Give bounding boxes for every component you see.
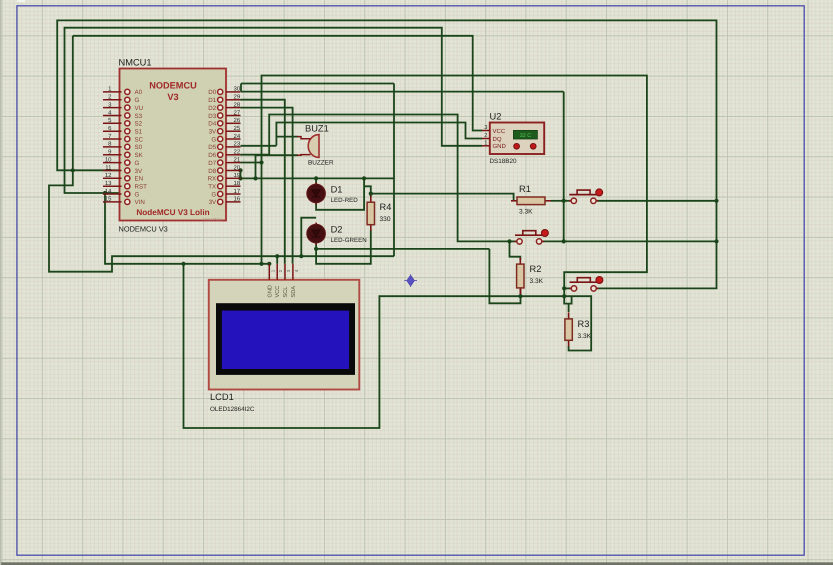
buzzer BUZ1 terminal stubs bbox=[297, 137, 311, 139]
svg-text:GND: GND bbox=[493, 143, 507, 150]
svg-text:27: 27 bbox=[234, 109, 241, 116]
pin 30 D0 right stub bbox=[226, 91, 241, 93]
svg-text:EN: EN bbox=[135, 176, 144, 183]
svg-text:BUZZER: BUZZER bbox=[308, 160, 334, 167]
NodeMCU module NMCU1 body bbox=[120, 69, 227, 221]
svg-text:NodeMCU V3 Lolin: NodeMCU V3 Lolin bbox=[136, 208, 209, 217]
resistor R4 body bbox=[370, 196, 372, 203]
svg-text:16: 16 bbox=[234, 196, 241, 203]
wire R2 top jog bbox=[510, 241, 521, 260]
svg-text:D4: D4 bbox=[208, 121, 216, 128]
svg-text:3.3K: 3.3K bbox=[519, 208, 533, 215]
node LED D2 top bbox=[299, 254, 303, 258]
svg-text:S2: S2 bbox=[135, 121, 143, 128]
svg-text:D2: D2 bbox=[331, 225, 343, 235]
pin 3 VU left stub bbox=[103, 107, 122, 109]
svg-text:24: 24 bbox=[234, 133, 241, 140]
svg-text:3V: 3V bbox=[209, 128, 217, 135]
wire D1 to LCD SCL bbox=[241, 100, 285, 264]
pin 11 3V left stub bbox=[103, 170, 122, 172]
svg-text:DS18B20: DS18B20 bbox=[490, 158, 517, 165]
svg-text:32 C: 32 C bbox=[520, 133, 531, 139]
push button S2 terminals bbox=[515, 240, 517, 242]
svg-text:3.3K: 3.3K bbox=[578, 333, 592, 340]
svg-text:SC: SC bbox=[135, 136, 144, 143]
pin 28 D2 right stub bbox=[226, 107, 241, 109]
svg-text:SDA: SDA bbox=[291, 286, 297, 298]
node LCD GND bbox=[267, 262, 271, 266]
svg-text:BUZ1: BUZ1 bbox=[305, 124, 329, 134]
svg-text:G: G bbox=[135, 160, 140, 167]
node R1 right bbox=[562, 199, 566, 203]
svg-text:G: G bbox=[135, 97, 140, 104]
wire to button 1 left bbox=[564, 200, 572, 202]
node RX-R4 bbox=[362, 176, 366, 180]
svg-text:GND: GND bbox=[267, 285, 273, 297]
wire GND from pin 14 over top to U2 GND bbox=[65, 28, 483, 193]
node row2 bbox=[562, 239, 566, 243]
wire R2 bottom bbox=[520, 288, 522, 296]
wire R4 bottom loop bbox=[316, 230, 371, 264]
svg-text:OLED12864I2C: OLED12864I2C bbox=[210, 406, 255, 413]
pin 23 D5 right stub bbox=[226, 146, 241, 148]
resistor R2 body bbox=[519, 258, 521, 265]
pin 14 G left stub bbox=[103, 193, 122, 195]
svg-text:D1: D1 bbox=[331, 184, 343, 194]
LCD display LCD1 body bbox=[209, 280, 359, 390]
LED D2 body bbox=[307, 224, 325, 242]
svg-text:A0: A0 bbox=[135, 89, 143, 96]
pin 29 D1 right stub bbox=[226, 99, 241, 101]
svg-text:D5: D5 bbox=[208, 144, 216, 151]
LCD1 screen bezel bbox=[216, 303, 355, 375]
pin 22 D6 right stub bbox=[226, 154, 241, 156]
svg-text:26: 26 bbox=[234, 117, 241, 124]
pin 1 A0 left stub bbox=[103, 91, 122, 93]
svg-text:S0: S0 bbox=[135, 144, 143, 151]
svg-text:14: 14 bbox=[105, 188, 112, 195]
svg-text:LED-RED: LED-RED bbox=[331, 197, 359, 204]
svg-text:S3: S3 bbox=[135, 113, 143, 120]
wire LED D2 top to VCC line bbox=[301, 218, 316, 257]
wire button 3 left bbox=[564, 287, 571, 289]
resistor R3 body bbox=[568, 312, 570, 319]
svg-text:30: 30 bbox=[234, 86, 241, 93]
svg-text:R3: R3 bbox=[578, 319, 590, 329]
node R2 bottom bbox=[518, 294, 522, 298]
svg-text:R1: R1 bbox=[519, 184, 531, 194]
svg-text:LCD1: LCD1 bbox=[210, 392, 234, 402]
U2 indicator LEDs bbox=[514, 143, 520, 149]
svg-text:3V: 3V bbox=[135, 168, 143, 175]
temperature sensor U2 body bbox=[490, 123, 544, 155]
screen left edge bbox=[0, 0, 1, 565]
wire buzzer top terminal bbox=[276, 136, 298, 138]
wire D2 to LCD SDA bbox=[241, 108, 293, 264]
node LED D2 bottom bbox=[314, 247, 318, 251]
node LCD VCC bbox=[275, 254, 279, 258]
resistor R1 body bbox=[511, 200, 517, 202]
pin 5 S2 left stub bbox=[103, 122, 122, 124]
node buzzer RX bbox=[253, 176, 257, 180]
node R4 top bbox=[369, 192, 373, 196]
svg-text:V3: V3 bbox=[167, 92, 178, 102]
svg-text:D1: D1 bbox=[208, 97, 216, 104]
push button S1 actuator bbox=[569, 194, 598, 196]
node LCD loop bbox=[181, 262, 185, 266]
svg-text:S1: S1 bbox=[135, 128, 143, 135]
svg-text:G: G bbox=[211, 191, 216, 198]
wire D6 to button 2 row bbox=[241, 115, 510, 242]
U2 pin stubs bbox=[482, 130, 490, 132]
svg-text:17: 17 bbox=[234, 188, 241, 195]
wire button 2 left bbox=[510, 240, 517, 242]
push button S3 actuator bbox=[570, 281, 599, 283]
svg-text:D6: D6 bbox=[208, 152, 216, 159]
wire R4 junction to R1 left bbox=[371, 194, 514, 201]
node 3V junction bbox=[71, 168, 75, 172]
wire F vertical at x=72.8 bbox=[72, 36, 74, 171]
pin 20 D8 right stub bbox=[226, 170, 241, 172]
svg-text:29: 29 bbox=[234, 94, 241, 101]
push button S3 terminals bbox=[569, 287, 571, 289]
pin 21 D7 right stub bbox=[226, 162, 241, 164]
svg-text:13: 13 bbox=[105, 180, 112, 187]
wire D0 drop to VCC line bbox=[393, 84, 395, 257]
push button S2 indicator bbox=[541, 230, 548, 237]
pin 15 VIN left stub bbox=[103, 201, 122, 203]
LCD1 screen bbox=[222, 311, 349, 369]
svg-text:D0: D0 bbox=[208, 89, 216, 96]
svg-text:SCL: SCL bbox=[283, 287, 289, 298]
wire buzzer-D5 to U2 DQ bbox=[276, 123, 482, 146]
svg-text:3V: 3V bbox=[209, 199, 217, 206]
U2 display window bbox=[513, 130, 537, 139]
svg-text:15: 15 bbox=[105, 196, 112, 203]
pin 18 TX right stub bbox=[226, 185, 241, 187]
svg-text:D2: D2 bbox=[208, 105, 216, 112]
origin marker bbox=[407, 275, 415, 286]
svg-text:VCC: VCC bbox=[275, 286, 281, 298]
svg-text:U2: U2 bbox=[490, 112, 502, 122]
pin 13 RST left stub bbox=[103, 185, 122, 187]
node rail b1 bbox=[714, 199, 718, 203]
pin 27 D3 right stub bbox=[226, 115, 241, 117]
svg-text:VCC: VCC bbox=[493, 128, 506, 135]
wire R3 top stub link bbox=[568, 304, 570, 312]
svg-text:LED-GREEN: LED-GREEN bbox=[331, 237, 367, 244]
svg-text:D3: D3 bbox=[208, 113, 216, 120]
svg-text:1: 1 bbox=[484, 140, 487, 146]
wire LED D2 bottom row bbox=[316, 248, 489, 250]
wire LED D1 top bbox=[315, 178, 317, 184]
svg-text:11: 11 bbox=[105, 164, 112, 171]
pin 9 SK left stub bbox=[103, 154, 122, 156]
svg-text:28: 28 bbox=[234, 101, 241, 108]
wire GND rail upper loop to button 3 bbox=[262, 76, 647, 304]
top notch bbox=[18, 0, 26, 2]
pin 7 SC left stub bbox=[103, 138, 122, 140]
svg-text:VU: VU bbox=[135, 105, 144, 112]
wire D0 upper run bbox=[241, 83, 394, 85]
pin 10 G left stub bbox=[103, 162, 122, 164]
pin 24 G right stub bbox=[226, 138, 241, 140]
wire D7 stub to rail bbox=[241, 162, 262, 164]
svg-text:19: 19 bbox=[234, 172, 241, 179]
wire D0 vertical to R1 junction bbox=[563, 92, 565, 242]
svg-text:12: 12 bbox=[105, 172, 112, 179]
buzzer BUZ1 body bbox=[308, 135, 319, 158]
push button S3 indicator bbox=[596, 277, 603, 284]
LED D2 terminals bbox=[315, 223, 317, 245]
wire D5 row bbox=[241, 145, 277, 147]
svg-text:RST: RST bbox=[135, 183, 148, 190]
wire RX row to D0 drop bbox=[241, 177, 395, 179]
svg-text:3: 3 bbox=[484, 124, 487, 131]
wire D8 drop to RX row bbox=[240, 170, 242, 178]
wire to U2 VCC bbox=[73, 36, 482, 131]
LED D1 body bbox=[307, 184, 325, 202]
wire down to R2 bottom node bbox=[489, 249, 520, 303]
push button S2 actuator bbox=[515, 234, 544, 236]
pin 16 3V right stub bbox=[226, 201, 241, 203]
pin 2 G left stub bbox=[103, 99, 122, 101]
svg-text:RX: RX bbox=[208, 176, 217, 183]
svg-text:3.3K: 3.3K bbox=[530, 278, 544, 285]
svg-text:G: G bbox=[211, 136, 216, 143]
svg-text:330: 330 bbox=[380, 216, 391, 223]
svg-text:20: 20 bbox=[234, 164, 241, 171]
wire R1 right bbox=[551, 200, 564, 202]
wire GND branch to LCD GND bbox=[105, 193, 269, 264]
screen bottom edge bbox=[0, 562, 833, 565]
svg-text:R2: R2 bbox=[530, 264, 542, 274]
wire buzzer bottom drop bbox=[256, 155, 299, 178]
node b3 cross bbox=[562, 294, 566, 298]
node GND junction bbox=[103, 191, 107, 195]
node button2 left bbox=[507, 239, 511, 243]
svg-text:D8: D8 bbox=[208, 168, 216, 175]
svg-text:TX: TX bbox=[208, 183, 216, 190]
wire D0 row bbox=[241, 91, 564, 93]
node D8-RX bbox=[238, 176, 242, 180]
wire LED D2 bottom stub bbox=[315, 242, 317, 249]
svg-text:NMCU1: NMCU1 bbox=[119, 58, 152, 68]
pin 19 RX right stub bbox=[226, 177, 241, 179]
svg-text:21: 21 bbox=[234, 156, 241, 163]
wire 3V branch loop to LCD VCC line bbox=[49, 170, 394, 271]
svg-text:NODEMCU: NODEMCU bbox=[149, 81, 197, 91]
wire R4 top link bbox=[364, 186, 371, 196]
svg-text:DQ: DQ bbox=[493, 136, 502, 143]
push button S1 terminals bbox=[569, 200, 571, 202]
LCD1 pin stubs bbox=[268, 264, 270, 280]
svg-text:25: 25 bbox=[234, 125, 241, 132]
wire LCD VCC drop bbox=[276, 256, 278, 264]
pin 17 G right stub bbox=[226, 193, 241, 195]
pin 25 3V right stub bbox=[226, 130, 241, 132]
wire LCD ground loop bottom bbox=[184, 264, 592, 428]
pin 4 S3 left stub bbox=[103, 115, 122, 117]
svg-text:22: 22 bbox=[234, 149, 241, 156]
svg-text:G: G bbox=[135, 191, 140, 198]
node GND drop bbox=[259, 262, 263, 266]
svg-text:NODEMCU V3: NODEMCU V3 bbox=[119, 225, 168, 234]
wire button 1 right to rail bbox=[593, 200, 716, 202]
pin 6 S1 left stub bbox=[103, 130, 122, 132]
wire button 2 right to rail bbox=[539, 240, 716, 242]
pin 12 EN left stub bbox=[103, 177, 122, 179]
pin 26 D4 right stub bbox=[226, 122, 241, 124]
svg-text:VIN: VIN bbox=[135, 199, 145, 206]
wire LED D1 bottom loop bbox=[316, 178, 364, 209]
svg-text:R4: R4 bbox=[380, 202, 392, 212]
node D8 bbox=[238, 168, 242, 172]
wire 3V rail from pin 11 over top to buttons bbox=[57, 20, 716, 288]
svg-text:D7: D7 bbox=[208, 160, 216, 167]
node D7 bbox=[259, 160, 263, 164]
svg-text:10: 10 bbox=[105, 156, 112, 163]
LED D1 terminals bbox=[315, 182, 317, 204]
svg-text:SK: SK bbox=[135, 152, 144, 159]
pin 8 S0 left stub bbox=[103, 146, 122, 148]
svg-text:18: 18 bbox=[234, 180, 241, 187]
svg-text:2: 2 bbox=[484, 132, 487, 139]
wire D0 jog bbox=[240, 84, 242, 92]
node rail b2 bbox=[714, 239, 718, 243]
node button3 left bbox=[562, 286, 566, 290]
push button S1 indicator bbox=[596, 189, 603, 196]
svg-text:23: 23 bbox=[234, 141, 241, 148]
node LED D1 top bbox=[314, 176, 318, 180]
svg-text:Amica Make: Amica Make bbox=[202, 218, 222, 222]
